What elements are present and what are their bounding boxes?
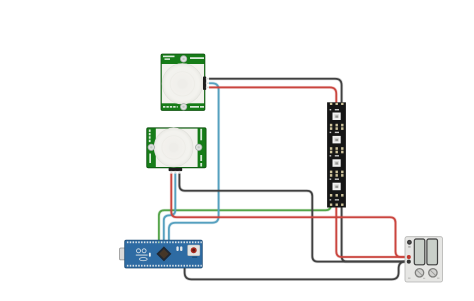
wire PIR2 OUT cyan: down from PIR2 with jog left into Nano top pin <box>164 173 176 240</box>
NANO oval label <box>139 258 147 261</box>
wire PIR2 VCC red: down from PIR2, right, down, to supply plus <box>171 173 408 257</box>
Arduino Nano U1 <box>120 240 203 268</box>
USB connector <box>120 248 136 260</box>
small part right of logo <box>149 253 151 257</box>
panel silk specks <box>408 278 440 279</box>
mounting hole top <box>180 56 186 62</box>
mounting hole left <box>148 144 154 150</box>
screw terminals <box>415 269 423 277</box>
top pin row <box>127 241 202 243</box>
wire PIR1 GND black: right from PIR1 then down to strip top right pad <box>209 79 342 105</box>
header connector J2 <box>169 168 183 171</box>
wire LED strip GND black: from strip bottom pad down then right to supply minus <box>342 205 408 262</box>
capacitors C1 C2 <box>176 246 178 251</box>
RESET silk label <box>192 257 197 258</box>
power supply PS1 <box>405 237 443 282</box>
wire LED strip 5V red: from strip bottom pad down then right to supply plus <box>336 205 408 257</box>
terminal block covers <box>414 239 425 265</box>
terminal - (black wire end) <box>407 260 411 264</box>
terminal + (red wire end) <box>407 255 411 259</box>
PIR motion sensor PIR1 (portrait) <box>161 54 209 111</box>
silkscreen text marks <box>163 56 204 108</box>
strip silkscreen specks <box>330 109 339 201</box>
PIR motion sensor PIR2 (landscape) <box>147 128 206 174</box>
wire Arduino GND black: from Nano bottom pin down, right, up to supply minus <box>185 262 408 280</box>
NeoPixel LED strip LED1 <box>327 102 346 207</box>
wire PIR1 VCC red: right from PIR1 then down to strip top center pad <box>209 87 336 104</box>
mounting hole right <box>196 144 202 150</box>
gold pads <box>330 103 344 206</box>
header connector J1 <box>203 77 206 90</box>
DC jack knob <box>407 240 412 245</box>
ARDUINO text <box>136 255 148 256</box>
wire PIR2 GND black: down from PIR2, right, down, to supply minus <box>179 173 408 261</box>
mounting hole bottom <box>180 104 186 110</box>
wire PIR1 OUT cyan: right from PIR1, down, left, down into Nano top pin <box>169 83 219 240</box>
silkscreen text marks <box>149 129 202 167</box>
wire LED strip DIN green: from Nano top pin up then right to strip bottom left pad <box>159 204 331 241</box>
board <box>125 240 203 268</box>
LED packages <box>333 113 341 191</box>
reset button SW1 <box>188 245 200 256</box>
Arduino infinity logo <box>137 249 141 253</box>
bottom pin row <box>127 265 202 267</box>
ATmega chip (diamond) <box>156 246 171 261</box>
